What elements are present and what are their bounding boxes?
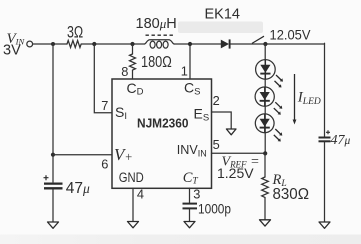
junction node G bbox=[263, 151, 267, 155]
wire: right rail down to cap bbox=[324, 43, 326, 136]
svg-text:180Ω: 180Ω bbox=[141, 54, 172, 71]
svg-text:3Ω: 3Ω bbox=[67, 24, 83, 42]
ground (pin 4) bbox=[128, 222, 139, 228]
svg-text:1.25V: 1.25V bbox=[217, 165, 254, 181]
wire: pin 5 to LED bottom bbox=[212, 152, 266, 154]
wire: terminal to R1 bbox=[33, 43, 67, 45]
wire: pin 2 ES to ground bbox=[212, 112, 232, 129]
dashed core line bbox=[146, 34, 174, 36]
ILED current arrow bbox=[293, 74, 297, 125]
ground (C1) bbox=[48, 222, 59, 228]
junction node F bbox=[188, 42, 192, 46]
inductor L 180uH bbox=[145, 40, 175, 48]
svg-text:830Ω: 830Ω bbox=[273, 186, 310, 203]
svg-text:3V: 3V bbox=[3, 43, 21, 59]
capacitor CT 1000p bbox=[183, 204, 198, 209]
svg-text:1000p: 1000p bbox=[198, 201, 231, 217]
svg-text:EK14: EK14 bbox=[205, 7, 240, 23]
junction node A bbox=[51, 42, 55, 46]
resistor RL 830ohm bbox=[262, 177, 269, 197]
node 12.05V probe tick bbox=[252, 36, 264, 43]
diode D1 bbox=[221, 39, 230, 48]
svg-text:2: 2 bbox=[213, 93, 220, 108]
ground (ES) bbox=[226, 129, 236, 135]
LED D3 bbox=[255, 87, 282, 115]
wire: pin6 V+ bbox=[53, 154, 112, 156]
svg-text:8: 8 bbox=[121, 64, 128, 79]
svg-text:3: 3 bbox=[193, 186, 200, 201]
svg-text:47μ: 47μ bbox=[331, 133, 351, 148]
wire: C1 to ground bbox=[52, 190, 54, 223]
wire: node B down to pin 7 bbox=[94, 44, 112, 113]
label VIN 3V bbox=[3, 31, 26, 59]
wire: pin 4 GND to ground bbox=[132, 188, 134, 221]
LED D2 bbox=[256, 60, 283, 88]
wire: pin 3 to CT cap bbox=[189, 188, 191, 203]
wire: inductor to diode bbox=[174, 43, 221, 45]
wire: node A down to V+ and C1 bbox=[52, 44, 54, 182]
svg-text:1: 1 bbox=[181, 63, 188, 78]
wire: diode to right corner bbox=[231, 43, 325, 45]
wire: LED chain bbox=[264, 44, 266, 154]
input terminal bbox=[27, 41, 33, 47]
resistor 3ohm bbox=[67, 41, 81, 48]
wire: cap to ground bbox=[324, 142, 326, 222]
ground (right rail) bbox=[319, 222, 330, 228]
capacitor C3 47u (output) bbox=[319, 130, 331, 141]
svg-text:6: 6 bbox=[101, 156, 108, 171]
junction node C bbox=[130, 42, 134, 46]
op-amp U1 NJM2360 box bbox=[112, 79, 212, 188]
wire: R1 to inductor bbox=[82, 43, 145, 45]
svg-text:4: 4 bbox=[137, 186, 144, 201]
wire: CT cap to ground bbox=[189, 210, 191, 222]
svg-text:180μH: 180μH bbox=[136, 16, 177, 32]
svg-text:7: 7 bbox=[101, 98, 108, 113]
resistor 180ohm bbox=[130, 44, 136, 79]
wire: junction G to RL bbox=[264, 153, 266, 177]
ground (CT) bbox=[184, 222, 195, 228]
svg-text:47μ: 47μ bbox=[66, 180, 90, 197]
label VREF = 1.25V bbox=[217, 155, 260, 182]
svg-text:GND: GND bbox=[119, 170, 144, 185]
svg-text:12.05V: 12.05V bbox=[270, 27, 312, 43]
junction node D bbox=[263, 42, 267, 46]
svg-text:NJM2360: NJM2360 bbox=[137, 115, 189, 130]
LED D4 bbox=[255, 114, 282, 142]
ground (RL) bbox=[260, 220, 271, 226]
wire: RL to ground bbox=[264, 198, 266, 220]
svg-text:5: 5 bbox=[213, 137, 220, 152]
junction node E bbox=[51, 153, 55, 157]
capacitor C1 47u (input) bbox=[44, 175, 63, 188]
wire: pin 1 stub bbox=[189, 44, 191, 79]
junction node B bbox=[92, 42, 96, 46]
